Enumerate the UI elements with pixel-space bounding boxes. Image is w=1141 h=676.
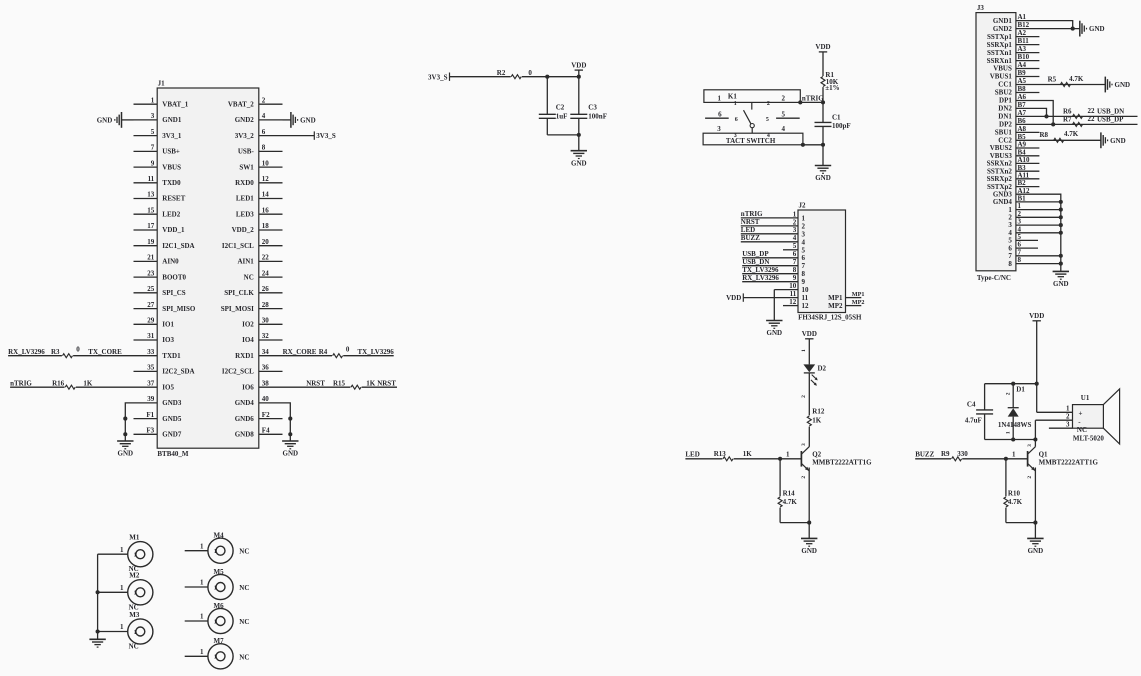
svg-text:NC: NC [239,548,249,556]
svg-text:1: 1 [718,95,722,103]
resistor R7 22 [1073,122,1083,126]
svg-text:2: 2 [793,218,797,226]
svg-text:GND7: GND7 [162,431,182,439]
svg-text:GND2: GND2 [235,116,255,124]
wire [822,87,824,102]
svg-text:F2: F2 [262,411,270,419]
resistor R5 4.7K [1060,83,1070,87]
wire [1036,321,1038,413]
J2 pin 7 [742,265,798,267]
svg-text:3: 3 [151,112,155,120]
svg-text:CC1: CC1 [998,81,1012,89]
J1 pin 36 I2C2_SCL [259,370,283,372]
svg-text:VDD: VDD [802,330,817,338]
resistor R1 10K ±1% [821,77,825,87]
svg-text:100nF: 100nF [588,113,607,121]
svg-text:7: 7 [151,144,155,152]
svg-text:12: 12 [262,175,270,183]
wire J3 A1 to B12 [1016,21,1073,29]
J2 pin 3 [741,233,798,235]
svg-text:NC: NC [1077,426,1087,434]
svg-text:SSRXp1: SSRXp1 [987,41,1013,49]
svg-text:SPI_CS: SPI_CS [162,289,185,297]
svg-text:13: 13 [147,191,155,199]
resistor R14 4.7K [779,459,781,497]
svg-text:4.7K: 4.7K [1064,130,1079,138]
J1 pin F4 GND8 [259,433,283,435]
svg-text:R6: R6 [1063,107,1072,115]
svg-text:SPI_MISO: SPI_MISO [162,305,196,313]
J1 pin 19 I2C1_SDA [134,245,158,247]
svg-text:J2: J2 [799,202,807,210]
svg-text:1: 1 [214,655,217,661]
svg-text:U1: U1 [1081,394,1090,402]
wire [1016,224,1061,226]
junction [1035,382,1039,386]
wire J2 pin10 to ground [773,290,775,321]
svg-text:11: 11 [790,290,797,298]
svg-text:1: 1 [200,579,204,587]
svg-text:IO2: IO2 [242,321,254,329]
svg-text:2: 2 [801,476,807,479]
svg-text:MP2: MP2 [828,302,843,310]
svg-text:1K: 1K [83,379,93,387]
svg-text:31: 31 [147,332,155,340]
wire [547,134,579,136]
wire [780,522,809,524]
svg-text:1: 1 [1012,451,1016,459]
wire [1016,263,1061,265]
wire [450,76,511,78]
svg-text:LED: LED [685,450,699,458]
svg-text:RX_LV3296: RX_LV3296 [742,274,779,282]
svg-text:GND: GND [300,116,316,124]
svg-text:BUZZ: BUZZ [915,450,934,458]
svg-text:5: 5 [802,246,806,254]
J1 pin 6 3V3_2 [259,135,283,137]
svg-text:2: 2 [781,95,785,103]
svg-text:22: 22 [1088,115,1096,123]
svg-text:33: 33 [147,348,155,356]
svg-text:C1: C1 [832,113,841,121]
svg-text:M6: M6 [214,602,225,610]
junction [1004,457,1008,461]
J1 pin 25 SPI_CS [134,292,158,294]
svg-text:1: 1 [214,619,217,625]
power VDD above R1 [819,51,827,53]
svg-text:8: 8 [1008,260,1012,268]
svg-text:DN1: DN1 [998,113,1012,121]
svg-text:1: 1 [200,542,204,550]
svg-text:GND5: GND5 [162,415,182,423]
svg-text:IO3: IO3 [162,336,174,344]
wire K1 bottom to C1 [803,144,823,146]
svg-text:I2C2_SDA: I2C2_SDA [162,368,194,376]
svg-text:30: 30 [262,317,270,325]
svg-text:I2C1_SDA: I2C1_SDA [162,242,194,250]
transistor Q2 MMBT2222ATT1G [800,451,802,467]
svg-text:1: 1 [134,591,137,597]
svg-text:4: 4 [781,125,785,133]
svg-text:I2C2_SCL: I2C2_SCL [222,368,254,376]
svg-text:VDD: VDD [571,61,586,69]
J2 pin 1 [741,217,798,219]
svg-text:14: 14 [262,191,270,199]
svg-text:SBU2: SBU2 [995,89,1013,97]
mounting hole M3 [128,619,153,644]
svg-text:GND: GND [1089,25,1105,33]
wire [1016,216,1061,218]
svg-text:SW1: SW1 [239,163,254,171]
svg-text:1: 1 [801,349,807,352]
wire emitter down [808,468,810,523]
svg-text:AIN1: AIN1 [237,258,254,266]
svg-text:SBU1: SBU1 [995,129,1013,137]
svg-text:1: 1 [200,648,204,656]
svg-text:2: 2 [767,101,770,107]
resistor R10 4.7K [1005,459,1007,497]
svg-text:2: 2 [802,222,806,230]
wire [1016,232,1061,234]
svg-text:7: 7 [802,262,806,270]
junction [1011,382,1015,386]
svg-text:FH34SRJ_12S_05SH: FH34SRJ_12S_05SH [798,314,862,322]
svg-text:34: 34 [262,348,270,356]
svg-text:GND3: GND3 [162,399,182,407]
svg-text:29: 29 [147,317,155,325]
svg-text:1: 1 [214,585,217,591]
svg-text:28: 28 [262,301,270,309]
svg-text:SPI_CLK: SPI_CLK [224,289,254,297]
svg-text:AIN0: AIN0 [162,258,179,266]
svg-text:6: 6 [735,117,738,123]
wire [808,373,810,416]
svg-text:DP1: DP1 [999,97,1012,105]
svg-text:GND: GND [767,329,783,337]
ground GND2 (J1 pin 4) [283,119,291,121]
svg-text:2: 2 [262,96,266,104]
ground below C1 [815,165,831,167]
svg-text:GND: GND [1115,81,1131,89]
J2 pin 11 [743,297,798,299]
net TX_CORE wire [73,355,133,357]
svg-text:BUZZ: BUZZ [741,234,760,242]
svg-text:MLT-5020: MLT-5020 [1073,435,1104,443]
J2 pin 10 [774,289,798,291]
wire [915,458,951,460]
svg-text:GND1: GND1 [162,116,182,124]
svg-text:4: 4 [262,112,266,120]
wire [283,355,333,357]
svg-text:M3: M3 [129,611,140,619]
J1 pin 31 IO3 [134,339,158,341]
buzzer U1 MLT-5020 [1073,405,1104,429]
ground at J3 CC1 [1104,77,1106,93]
J2 pin 6 [742,257,798,259]
svg-text:1: 1 [802,214,806,222]
svg-text:BOOT0: BOOT0 [162,273,186,281]
svg-text:1: 1 [786,451,790,459]
svg-text:NC: NC [129,643,139,651]
svg-text:R3: R3 [51,348,60,356]
svg-text:RXD0: RXD0 [235,179,254,187]
wire [1016,123,1138,125]
svg-text:C4: C4 [967,401,976,409]
svg-text:NC: NC [244,273,254,281]
svg-text:VDD: VDD [726,294,741,302]
J1 pin 35 I2C2_SDA [134,370,158,372]
J2 pin 12 [783,305,798,307]
svg-text:8: 8 [793,266,797,274]
svg-text:GND: GND [283,450,299,458]
svg-text:17: 17 [147,222,155,230]
wire [1016,28,1080,30]
svg-text:2: 2 [1066,412,1070,420]
svg-text:USB_DP: USB_DP [1097,115,1124,123]
K1 pin 5 stub [776,117,800,119]
wire GND bus left of J1 [125,403,133,434]
svg-text:F3: F3 [146,427,154,435]
ground below C3 [571,150,587,152]
svg-text:4.7K: 4.7K [1008,498,1023,506]
svg-text:SSTXp1: SSTXp1 [987,33,1012,41]
svg-text:R8: R8 [1040,131,1049,139]
junction [1051,122,1055,126]
svg-text:39: 39 [147,395,155,403]
svg-text:10: 10 [262,159,270,167]
capacitor C4 4.7uF [984,384,986,410]
svg-text:nTRIG: nTRIG [741,210,763,218]
svg-text:R9: R9 [941,450,950,458]
mounting hole M1 [128,542,153,567]
svg-text:1N4148WS: 1N4148WS [998,421,1032,429]
J1 pin F1 GND5 [134,418,158,420]
svg-text:SSRXp2: SSRXp2 [987,175,1013,183]
junction [1033,437,1037,441]
svg-text:3V3_2: 3V3_2 [235,132,255,140]
svg-text:GND: GND [571,159,587,167]
wire [822,145,824,166]
svg-text:USB_DN: USB_DN [742,258,769,266]
J1 pin 17 VDD_1 [134,229,158,231]
wire J3 DP1 to DP2 [1016,101,1053,125]
svg-text:4: 4 [793,234,797,242]
svg-text:J1: J1 [158,79,166,87]
connector J2 FH34SRJ_12S_05SH [798,210,846,313]
wire GND bus right of J1 [283,403,291,434]
J1 pin 38 IO6 [259,386,283,388]
ground GND1 (J1 pin 3) [122,119,134,121]
J1 pin 33 TXD1 [134,355,158,357]
svg-text:22: 22 [1088,107,1096,115]
J2 pin 5 [783,249,798,251]
junction [801,143,805,147]
svg-text:USB-: USB- [238,148,255,156]
svg-text:5: 5 [766,117,769,123]
svg-text:3: 3 [717,125,721,133]
svg-text:1: 1 [200,613,204,621]
svg-text:VBUS: VBUS [993,65,1012,73]
svg-text:I2C1_SCL: I2C1_SCL [222,242,254,250]
J1 pin 3 GND1 [134,119,158,121]
svg-text:GND: GND [815,174,831,182]
svg-text:19: 19 [147,238,155,246]
svg-text:10: 10 [789,282,797,290]
J2 pin 8 [742,273,798,275]
ground below J1 right [289,434,291,441]
svg-text:3: 3 [802,230,806,238]
svg-text:21: 21 [147,254,155,262]
wire [1006,522,1036,524]
junction [1071,27,1075,31]
net 3V3_S (J1 pin 6) [283,135,315,137]
svg-text:R16: R16 [52,379,65,387]
svg-text:MP2: MP2 [852,299,865,306]
net TX_LV3296 wire [343,355,394,357]
mounting hole M7 [208,644,233,669]
svg-text:1: 1 [134,553,137,559]
power VDD above D2 [805,338,813,340]
J1 pin 24 NC [259,276,283,278]
svg-text:GND: GND [97,116,113,124]
svg-text:R12: R12 [812,407,825,415]
svg-text:40: 40 [262,395,270,403]
svg-text:IO1: IO1 [162,321,174,329]
svg-text:R2: R2 [497,69,506,77]
junction [96,629,100,633]
J1 pin F3 GND7 [134,433,158,435]
mounting hole M6 [208,608,233,633]
wire J3 DN2 to DN1 [1016,108,1047,116]
svg-text:GND: GND [1110,137,1126,145]
svg-text:18: 18 [262,222,270,230]
connector J1 BTB40_M [157,88,259,448]
svg-text:F4: F4 [262,427,270,435]
svg-text:M4: M4 [214,532,225,540]
svg-text:26: 26 [262,285,270,293]
U1 pin 2 wire [1035,419,1072,421]
LED D2 [803,364,815,372]
svg-text:0: 0 [528,69,532,77]
wire [685,458,722,460]
svg-text:SSRXn1: SSRXn1 [987,57,1013,65]
svg-text:8: 8 [802,270,806,278]
svg-text:15: 15 [147,206,155,214]
svg-text:MP1: MP1 [852,291,865,298]
svg-text:VDD_2: VDD_2 [232,226,255,234]
wire [76,386,134,388]
svg-text:D1: D1 [1016,385,1025,393]
wire [962,458,1027,460]
svg-text:2: 2 [1027,476,1033,479]
power VDD [575,69,583,71]
svg-text:1K: 1K [743,450,753,458]
svg-text:GND: GND [801,547,817,555]
svg-text:NC: NC [239,618,249,626]
junction [96,590,100,594]
svg-text:10: 10 [802,286,810,294]
resistor R6 22 [1073,114,1083,118]
svg-text:6: 6 [718,110,722,118]
junction [1011,437,1015,441]
svg-text:VBAT_1: VBAT_1 [162,100,188,108]
svg-text:NC: NC [239,584,249,592]
J1 pin 23 BOOT0 [134,276,158,278]
svg-text:nTRIG: nTRIG [802,94,824,102]
svg-text:R5: R5 [1048,75,1057,83]
wire [1016,139,1101,141]
svg-text:DP2: DP2 [999,121,1012,129]
resistor R8 4.7K [1054,138,1064,142]
wire [822,52,824,76]
svg-text:IO6: IO6 [242,383,254,391]
svg-text:11: 11 [802,294,809,302]
svg-text:2: 2 [801,395,807,398]
svg-text:LED: LED [741,226,755,234]
wire [1016,209,1061,211]
svg-text:35: 35 [147,364,155,372]
svg-text:BTB40_M: BTB40_M [157,450,189,458]
svg-text:330: 330 [957,450,968,458]
svg-text:GND1: GND1 [993,17,1013,25]
svg-text:3: 3 [1027,444,1033,447]
svg-text:20: 20 [262,238,270,246]
svg-text:1: 1 [734,101,737,107]
svg-text:NRST: NRST [741,218,760,226]
junction [821,100,825,104]
svg-text:DN2: DN2 [998,105,1012,113]
svg-text:6: 6 [802,254,806,262]
svg-text:GND6: GND6 [235,415,255,423]
J1 pin 26 SPI_CLK [259,292,283,294]
svg-text:R4: R4 [319,348,328,356]
svg-text:C2: C2 [556,103,565,111]
svg-text:38: 38 [262,379,270,387]
svg-text:R7: R7 [1063,115,1072,123]
wire [808,339,810,365]
svg-text:1K: 1K [366,379,376,387]
svg-text:0: 0 [346,345,350,353]
svg-text:USB_DN: USB_DN [1097,107,1124,115]
J1 pin 1 VBAT_1 [134,103,158,105]
svg-text:23: 23 [147,269,155,277]
svg-text:25: 25 [147,285,155,293]
svg-text:3: 3 [801,443,807,446]
svg-text:LED1: LED1 [236,195,254,203]
svg-text:IO5: IO5 [162,383,174,391]
svg-text:USB+: USB+ [162,148,180,156]
svg-text:C3: C3 [588,103,597,111]
wire [1016,201,1061,203]
junction [577,75,581,79]
svg-text:1: 1 [793,210,797,218]
svg-text:GND: GND [1028,547,1044,555]
junction [1044,114,1048,118]
svg-text:4: 4 [802,238,806,246]
svg-text:3: 3 [734,133,737,139]
J1 pin 21 AIN0 [134,260,158,262]
svg-text:VBUS1: VBUS1 [990,73,1013,81]
svg-text:RESET: RESET [162,195,185,203]
ground below M3 [97,632,99,640]
svg-text:27: 27 [147,301,155,309]
svg-text:M7: M7 [214,637,225,645]
junction [821,143,825,147]
svg-text:1uF: 1uF [556,113,568,121]
svg-text:5: 5 [781,110,785,118]
J1 pin 22 AIN1 [259,260,283,262]
svg-text:11: 11 [148,175,155,183]
